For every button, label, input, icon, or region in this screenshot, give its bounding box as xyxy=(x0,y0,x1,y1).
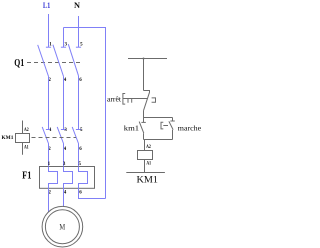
wire KM1 contact2 to F1 xyxy=(63,144,65,167)
breaker Q1 pole2 blade xyxy=(53,45,64,77)
pushbutton arret plunger link xyxy=(123,98,148,100)
wire rail to arret button xyxy=(143,59,145,91)
pushbutton arret plunger tick2 xyxy=(131,99,133,103)
motor M1 outer circle xyxy=(42,206,83,247)
svg-text:km1: km1 xyxy=(124,123,140,132)
svg-text:L1: L1 xyxy=(43,1,51,10)
contactor KM1 coil top stub xyxy=(22,121,24,134)
svg-text:A2: A2 xyxy=(146,145,151,150)
svg-text:F1: F1 xyxy=(22,171,31,182)
thermal relay F1 box xyxy=(40,167,95,189)
wire KM1 contact3 to F1 xyxy=(78,144,80,167)
contactor KM1 contact3 blade xyxy=(72,127,78,144)
svg-text:Q1: Q1 xyxy=(14,57,24,69)
svg-text:KM1: KM1 xyxy=(137,175,159,185)
control top rail xyxy=(128,58,167,60)
svg-text:1: 1 xyxy=(49,128,52,133)
thermal relay F1 element3 xyxy=(79,167,88,189)
breaker Q1 pole1 fixed contact tick xyxy=(46,46,51,48)
wire Q1 pole3 to KM1 contact3 xyxy=(78,76,80,130)
wire branch bottom xyxy=(144,139,173,141)
wire right branch down to motor terminal xyxy=(105,28,107,199)
wire bus to Q1 pole2 xyxy=(63,28,65,48)
wire marche to branch bottom xyxy=(172,130,174,140)
thermal relay F1 element1 xyxy=(49,167,58,189)
breaker Q1 mechanical link dashed xyxy=(27,62,81,64)
contactor KM1 mechanical link dashed xyxy=(32,137,77,139)
breaker Q1 pole3 fixed contact tick xyxy=(76,46,81,48)
svg-text:1: 1 xyxy=(49,42,52,47)
wire Q1 pole1 to KM1 contact1 xyxy=(48,76,50,129)
svg-text:arrêt: arrêt xyxy=(107,95,122,104)
svg-text:marche: marche xyxy=(178,124,202,133)
pushbutton marche blade xyxy=(169,121,173,129)
contact km1 top stub xyxy=(143,118,145,123)
contactor KM1 coil bottom stub xyxy=(22,143,24,155)
wire F1 to motor V xyxy=(63,189,65,207)
svg-text:N: N xyxy=(74,1,80,10)
wire arret to branch xyxy=(143,110,145,117)
pushbutton marche cap bracket xyxy=(161,122,163,129)
motor M1 inner circle xyxy=(45,210,79,244)
control bottom rail xyxy=(126,172,165,174)
wire coil to bottom rail xyxy=(144,160,146,173)
wire km1 to branch bottom xyxy=(143,133,145,139)
wire N down to Q1 pole3 xyxy=(78,16,80,47)
svg-text:A1: A1 xyxy=(24,146,29,151)
svg-text:4: 4 xyxy=(64,78,67,83)
junction dot on rail xyxy=(143,58,145,60)
svg-text:5: 5 xyxy=(80,128,83,133)
svg-text:4: 4 xyxy=(64,147,67,152)
thermal relay F1 element2 xyxy=(64,167,73,189)
svg-text:3: 3 xyxy=(65,42,68,47)
svg-text:6: 6 xyxy=(79,190,82,195)
contactor KM1 contact2 blade xyxy=(57,127,63,144)
pushbutton marche plunger link xyxy=(163,125,168,127)
wire branch top xyxy=(144,117,173,119)
svg-text:A2: A2 xyxy=(24,128,29,133)
svg-text:4: 4 xyxy=(64,190,67,195)
svg-text:5: 5 xyxy=(80,42,83,47)
wire branch to coil KM1 xyxy=(144,140,146,151)
pushbutton arret fixed contact jog xyxy=(144,91,150,93)
breaker Q1 pole3 blade xyxy=(68,44,78,76)
pushbutton marche top stub xyxy=(172,118,174,121)
breaker Q1 pole1 blade xyxy=(38,45,49,77)
pushbutton arret cap bracket xyxy=(123,94,125,105)
wire F1 to motor U xyxy=(48,189,50,213)
contactor KM1 contact3 tick xyxy=(76,129,81,131)
wire KM1 contact1 to F1 xyxy=(48,144,50,167)
pushbutton marche tick xyxy=(170,120,174,122)
wire L1 down to Q1 pole1 xyxy=(48,14,50,47)
pushbutton arret hook xyxy=(152,98,156,102)
contactor KM1 contact2 tick xyxy=(61,129,66,131)
pushbutton arret plunger tick1 xyxy=(127,99,129,103)
wire F1 to motor W bend xyxy=(79,189,106,199)
breaker Q1 pole2 fixed contact tick xyxy=(61,46,66,48)
wire Q1 pole2 to KM1 contact2 xyxy=(63,76,65,129)
contactor KM1 contact1 tick xyxy=(46,129,51,131)
pushbutton arret blade xyxy=(144,92,150,110)
svg-text:3: 3 xyxy=(64,128,67,133)
contactor KM1 contact1 blade xyxy=(42,127,48,144)
contactor KM1 coil box xyxy=(16,134,30,143)
wire top bus horizontal xyxy=(64,27,107,29)
contact km1 blade xyxy=(139,122,144,134)
svg-text:6: 6 xyxy=(79,147,82,152)
coil KM1 box xyxy=(138,151,153,160)
svg-text:6: 6 xyxy=(79,78,82,83)
svg-text:A1: A1 xyxy=(146,162,151,167)
contact km1 tick xyxy=(141,121,145,123)
svg-text:M: M xyxy=(59,222,65,232)
svg-text:KM1: KM1 xyxy=(2,135,14,141)
